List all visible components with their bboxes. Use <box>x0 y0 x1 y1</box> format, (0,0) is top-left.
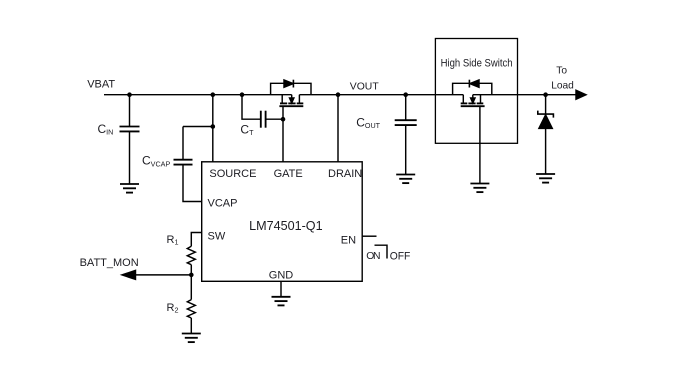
svg-text:SW: SW <box>208 231 226 243</box>
transistor Q1 body diode <box>284 80 293 88</box>
wire GND pin to ground <box>280 281 282 297</box>
svg-text:R2: R2 <box>167 302 179 315</box>
capacitor CIN <box>120 127 140 132</box>
node VBAT/CIN junction <box>127 92 132 97</box>
svg-text:CIN: CIN <box>98 122 114 137</box>
wire TVS drop <box>545 95 547 114</box>
wire CT to gate node <box>266 118 283 120</box>
svg-text:VCAP: VCAP <box>208 198 238 210</box>
svg-text:EN: EN <box>341 235 356 247</box>
svg-text:GATE: GATE <box>274 168 303 180</box>
node CT/gate junction <box>281 117 286 122</box>
svg-text:High Side Switch: High Side Switch <box>441 58 513 70</box>
wire VBAT main rail left segment <box>104 94 292 96</box>
wire gate lead Q1 to GATE pin <box>282 106 284 162</box>
ground IC GND <box>272 297 291 306</box>
wire R2 to ground <box>190 318 192 334</box>
svg-text:COUT: COUT <box>356 115 380 130</box>
wire main rail right segment (Q2 drain to load) <box>473 94 577 96</box>
svg-text:To: To <box>556 65 567 76</box>
transistor Q2 MOSFET <box>461 95 485 107</box>
wire SW pin to R1 <box>191 233 201 247</box>
resistor R2 <box>187 300 195 318</box>
wire DRAIN drop <box>337 95 339 162</box>
transistor Q2 body diode loop <box>453 83 492 94</box>
high side switch box <box>435 39 517 144</box>
wire CVCAP upper <box>182 127 184 160</box>
wire Q2 gate to ground <box>479 106 481 183</box>
ground COUT <box>396 175 415 184</box>
svg-text:ON: ON <box>366 251 380 262</box>
ground TVS <box>536 174 555 183</box>
wire R1 to node <box>190 265 192 275</box>
diode D1 TVS <box>538 111 554 129</box>
IC U1 LM74501-Q1 box <box>202 162 363 281</box>
svg-text:R1: R1 <box>167 234 179 247</box>
wire node to R2 <box>190 275 192 300</box>
svg-text:GND: GND <box>269 269 294 281</box>
svg-text:CT: CT <box>240 123 254 138</box>
node COUT junction <box>403 92 408 97</box>
capacitor COUT <box>395 120 417 125</box>
wire main rail middle segment (Q1 drain to Q2 source) <box>299 94 463 96</box>
wire COUT drop <box>405 95 407 121</box>
ground R2 <box>182 334 201 343</box>
transistor Q2 body diode <box>469 80 479 88</box>
transistor Q1 MOSFET <box>279 95 303 107</box>
node SOURCE junction <box>211 92 216 97</box>
svg-text:OFF: OFF <box>390 251 411 263</box>
wire CVCAP lower to VCAP pin <box>183 165 202 202</box>
resistor R1 <box>187 246 195 264</box>
svg-text:LM74501-Q1: LM74501-Q1 <box>249 219 323 233</box>
wire CIN drop <box>129 95 131 127</box>
wire CIN to ground <box>129 131 131 184</box>
svg-text:CVCAP: CVCAP <box>142 154 170 169</box>
svg-text:VOUT: VOUT <box>350 82 380 93</box>
node CVCAP junction <box>211 124 216 129</box>
transistor Q1 body diode loop <box>271 83 311 94</box>
node CT junction <box>240 92 245 97</box>
wire CT branch drop <box>242 95 260 120</box>
capacitor CVCAP <box>174 160 193 165</box>
wire COUT to ground <box>405 125 407 174</box>
node VOUT/DRAIN junction <box>336 92 341 97</box>
svg-text:BATT_MON: BATT_MON <box>80 257 139 269</box>
node TVS junction <box>543 92 548 97</box>
ground CIN <box>120 184 139 193</box>
arrow BATT_MON <box>122 270 136 279</box>
switch ON/OFF <box>375 245 388 258</box>
wire SOURCE drop <box>212 95 214 162</box>
svg-text:Load: Load <box>551 80 574 91</box>
wire BATT_MON <box>135 274 191 276</box>
capacitor CT <box>261 111 266 128</box>
ground high side switch <box>470 184 489 193</box>
svg-text:VBAT: VBAT <box>87 78 115 90</box>
wire TVS to ground <box>545 128 547 174</box>
svg-text:DRAIN: DRAIN <box>328 168 362 180</box>
wire CVCAP branch horizontal <box>183 126 213 128</box>
svg-text:SOURCE: SOURCE <box>209 168 256 180</box>
arrow to load <box>576 90 586 99</box>
node BATT_MON junction <box>189 273 194 278</box>
wire EN pin stub <box>362 235 376 237</box>
